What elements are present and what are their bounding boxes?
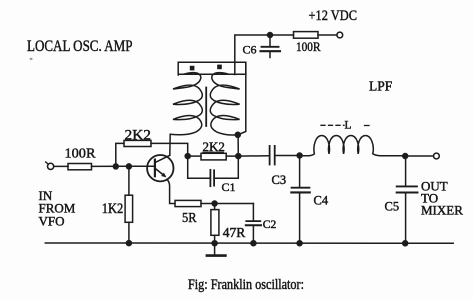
node input junction 1 [113, 164, 118, 169]
svg-text:2K2: 2K2 [203, 139, 225, 154]
node B junction [236, 154, 241, 159]
svg-text:100R: 100R [65, 147, 97, 162]
resistor 2K2 (feedback left) [124, 128, 151, 147]
transformer can right edge [238, 62, 246, 135]
svg-text:LOCAL OSC. AMP: LOCAL OSC. AMP [27, 38, 133, 55]
svg-text:2K2: 2K2 [125, 128, 152, 144]
wire 5R to C2 [201, 203, 253, 205]
svg-text:C5: C5 [385, 200, 400, 214]
transformer T1 secondary winding (right) [210, 73, 239, 135]
capacitor C3 [238, 146, 299, 187]
transistor Q1 emitter arrow [156, 169, 167, 177]
svg-text:C1: C1 [222, 180, 236, 194]
wire riser to 2K2 feedback [116, 143, 124, 166]
node 47R ground junction [212, 241, 217, 246]
svg-text:1K2: 1K2 [102, 201, 124, 217]
node LPF output junction [403, 154, 408, 159]
transistor Q1 base bar [154, 160, 156, 177]
transformer phasing dot left [190, 66, 195, 71]
node A junction [185, 154, 190, 159]
svg-text:47R: 47R [223, 225, 246, 240]
capacitor C6 [243, 35, 281, 58]
svg-text:VFO: VFO [39, 213, 65, 228]
capacitor C1 [188, 156, 239, 194]
resistor 47R [211, 204, 245, 244]
transformer T1 top bar [178, 62, 246, 75]
svg-text:LPF: LPF [369, 79, 393, 94]
svg-text:+12 VDC: +12 VDC [309, 8, 358, 24]
node 1K2 ground junction [126, 241, 131, 246]
wire LPF output to terminal [405, 155, 433, 157]
wire ground rail [45, 242, 453, 244]
wire supply terminal to R 100R [318, 34, 337, 36]
resistor 5R [175, 200, 201, 225]
resistor 100R (supply) [294, 32, 322, 54]
wire R100R to node V+ [270, 34, 294, 36]
transformer core [205, 88, 207, 127]
inductor L [300, 136, 406, 156]
resistor 1K2 [102, 166, 133, 243]
node V+ junction [268, 33, 273, 38]
terminal +12V supply [337, 32, 343, 38]
svg-text:C3: C3 [272, 173, 287, 187]
speck artifact [30, 58, 33, 60]
svg-text:100R: 100R [296, 40, 321, 54]
wire node V+ to transformer top [235, 35, 270, 75]
resistor 2K2 (base right) [188, 139, 239, 160]
transformer T1 primary winding (left) [170, 73, 203, 156]
wire collector to primary winding [156, 155, 170, 162]
node input junction 2 [126, 164, 131, 169]
transistor Q1 circle [147, 155, 173, 181]
svg-text:L: L [345, 120, 352, 132]
node C4 ground junction [297, 241, 302, 246]
ground symbol [207, 243, 226, 255]
inductor L dashed marker [321, 120, 369, 132]
node LPF input junction [297, 153, 302, 158]
svg-text:C6: C6 [243, 43, 257, 57]
node C5 ground junction [403, 241, 408, 246]
svg-text:5R: 5R [182, 211, 197, 226]
svg-text:C4: C4 [314, 194, 329, 208]
node secondary bottom junction [235, 132, 240, 137]
capacitor C5 [385, 156, 418, 243]
svg-text:C2: C2 [263, 218, 277, 231]
capacitor C2 [246, 204, 277, 244]
wire 2K2 to node A riser [151, 143, 188, 156]
wire secondary bottom to node B [237, 135, 239, 156]
node emitter junction [212, 201, 217, 206]
terminal output to mixer [434, 153, 440, 159]
transformer phasing dot right [217, 65, 222, 70]
capacitor C4 [291, 156, 329, 244]
svg-text:Fig: Franklin oscillator:: Fig: Franklin oscillator: [188, 277, 304, 293]
wire emitter to 5R [167, 179, 175, 203]
wire input row to base [92, 165, 155, 167]
node C2 ground junction [251, 241, 256, 246]
wire input terminal to R 100R input [54, 165, 68, 167]
resistor 100R (input) [65, 147, 97, 170]
terminal input VFO [46, 162, 54, 170]
svg-text:MIXER: MIXER [421, 202, 463, 217]
